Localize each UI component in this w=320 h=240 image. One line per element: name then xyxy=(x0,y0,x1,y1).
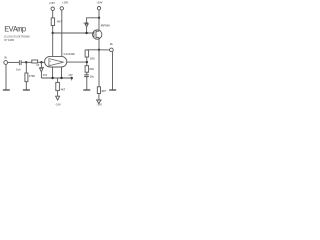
svg-text:1K: 1K xyxy=(36,64,39,67)
svg-text:10u: 10u xyxy=(90,74,95,78)
wire OUT to ground xyxy=(112,52,114,90)
svg-text:4K7: 4K7 xyxy=(57,20,62,24)
wire R1 to node A xyxy=(52,26,54,34)
zener D1 xyxy=(85,23,88,33)
node E junction dot xyxy=(86,61,88,63)
wire feedback to divider xyxy=(87,49,99,51)
op-amp bottom pin lines xyxy=(52,67,54,78)
supply terminal +15V (middle) xyxy=(60,7,63,57)
OUT terminal xyxy=(110,48,114,52)
wire drain xyxy=(98,18,100,31)
resistor R1 4K7 xyxy=(51,18,54,26)
svg-text:-15V: -15V xyxy=(55,103,61,107)
svg-text:10K: 10K xyxy=(89,67,94,71)
node C junction dot xyxy=(85,32,87,34)
wire R6 to C2 xyxy=(86,72,88,75)
supply arrow -15V (left) xyxy=(56,96,60,100)
wire rail to R4 xyxy=(57,78,59,82)
svg-text:+24V: +24V xyxy=(96,0,102,4)
svg-text:470K: 470K xyxy=(29,74,35,78)
node B junction dot xyxy=(98,17,100,19)
wire source down to node D xyxy=(98,37,100,49)
capacitor C1 xyxy=(19,60,21,65)
resistor R5 xyxy=(85,50,89,57)
supply terminal +15V (left) xyxy=(51,7,54,18)
junction dot rail right pin xyxy=(60,77,62,79)
wire op-amp output xyxy=(67,61,87,63)
svg-text:1u0: 1u0 xyxy=(16,67,21,71)
node G junction dot xyxy=(40,61,42,63)
svg-text:4K7: 4K7 xyxy=(61,87,66,91)
svg-text:-: - xyxy=(50,62,51,66)
svg-text:4R7: 4R7 xyxy=(101,89,106,93)
wire bottom rail xyxy=(41,77,71,79)
transistor Q1 IRF840 xyxy=(93,30,102,39)
resistor R2 series xyxy=(32,60,38,63)
wire R4 to arrow xyxy=(57,91,59,97)
wire gate line xyxy=(53,32,94,34)
svg-text:1K8: 1K8 xyxy=(90,57,95,61)
svg-text:RL: RL xyxy=(110,43,114,46)
wire node A to op-amp top pin xyxy=(52,33,54,56)
wire R2 to op-amp xyxy=(38,61,45,63)
node D junction dot xyxy=(98,49,100,51)
svg-text:IN: IN xyxy=(4,57,7,60)
junction dot rail left pin xyxy=(51,77,53,79)
svg-text:+15V: +15V xyxy=(49,1,55,5)
ground bar (OUT) xyxy=(109,89,116,91)
IN terminal xyxy=(4,61,8,65)
resistor R7 4R7 xyxy=(97,87,100,94)
op-amp U1 xyxy=(45,56,67,67)
capacitor C2 xyxy=(84,75,89,77)
svg-text:-15V: -15V xyxy=(68,74,73,77)
resistor R6 xyxy=(85,66,89,73)
wire source to R7 xyxy=(98,50,100,87)
zener D2 xyxy=(39,62,43,78)
resistor R3 470K xyxy=(25,62,28,90)
svg-text:-15V: -15V xyxy=(97,103,103,107)
svg-text:BY EMIR: BY EMIR xyxy=(4,39,14,42)
svg-text:+15V: +15V xyxy=(62,1,68,5)
node F junction dot xyxy=(25,61,27,63)
node A junction dot xyxy=(52,32,54,34)
wire IN to C1 xyxy=(8,61,20,63)
resistor R4 4K7 xyxy=(56,82,60,90)
ground bar (divider) xyxy=(83,89,90,91)
wire C2 to ground xyxy=(86,77,88,90)
svg-text:EVAmp: EVAmp xyxy=(4,26,26,35)
svg-text:IRF840: IRF840 xyxy=(101,24,111,28)
wire R5 to node E xyxy=(86,57,88,66)
supply arrow -15V (right) xyxy=(97,100,101,103)
svg-text:12: 12 xyxy=(83,23,85,25)
svg-text:CA3140E: CA3140E xyxy=(64,52,76,56)
wire IN to ground xyxy=(5,64,7,90)
junction dot rail end xyxy=(71,77,73,79)
wire C1 to R2 xyxy=(21,61,32,63)
wire R7 to arrow xyxy=(98,94,100,101)
supply terminal +24V (right) xyxy=(97,7,100,18)
svg-text:2V4: 2V4 xyxy=(43,74,48,77)
svg-text:(C) 2014 ELEKTRONIK: (C) 2014 ELEKTRONIK xyxy=(4,36,30,39)
wire branch to zener D1 xyxy=(87,18,99,23)
ground bar (IN) xyxy=(3,89,10,91)
stub rail end xyxy=(71,78,73,80)
wire to OUT xyxy=(99,49,110,51)
ground bar (R3) xyxy=(23,89,30,91)
